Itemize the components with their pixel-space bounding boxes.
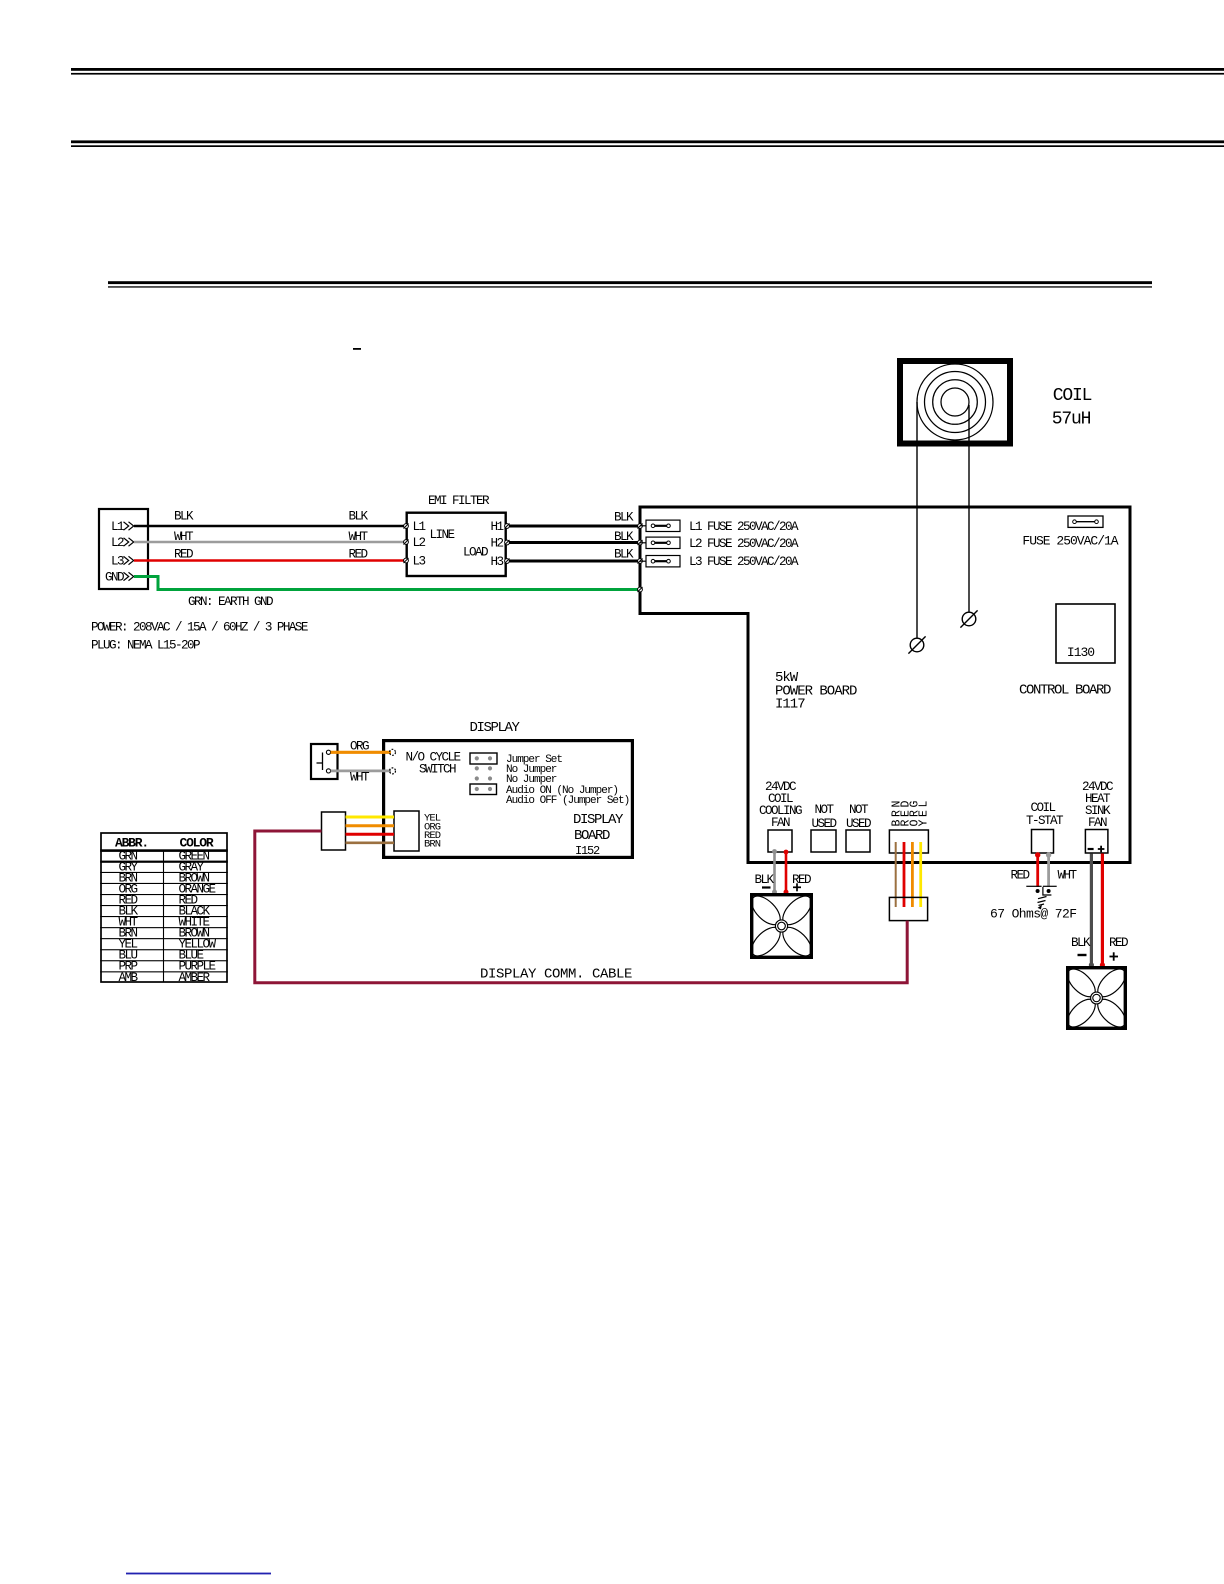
- svg-text:L3: L3: [413, 555, 426, 569]
- svg-text:L1: L1: [111, 520, 124, 534]
- svg-text:FAN: FAN: [771, 816, 790, 830]
- svg-text:WHT: WHT: [1058, 869, 1078, 883]
- svg-text:H3: H3: [491, 555, 504, 569]
- svg-text:COIL: COIL: [1053, 386, 1092, 406]
- svg-text:WHT: WHT: [350, 771, 370, 785]
- svg-text:NOT: NOT: [815, 803, 835, 817]
- svg-text:BLK: BLK: [614, 548, 634, 562]
- svg-text:LINE: LINE: [430, 528, 455, 542]
- svg-text:I117: I117: [775, 697, 805, 713]
- svg-text:AMB: AMB: [119, 971, 139, 985]
- svg-text:WHT: WHT: [174, 530, 194, 544]
- svg-text:H2: H2: [491, 537, 504, 551]
- svg-text:YEL: YEL: [918, 798, 931, 827]
- svg-text:ORG: ORG: [350, 740, 369, 754]
- svg-text:ABBR.: ABBR.: [115, 836, 148, 851]
- svg-text:COLOR: COLOR: [179, 836, 213, 851]
- svg-text:I130: I130: [1067, 645, 1094, 660]
- svg-text:67 Ohms@ 72F: 67 Ohms@ 72F: [990, 907, 1076, 922]
- svg-text:CONTROL BOARD: CONTROL BOARD: [1019, 683, 1111, 699]
- svg-text:FAN: FAN: [1088, 816, 1107, 830]
- svg-text:L3 FUSE 250VAC/20A: L3 FUSE 250VAC/20A: [689, 555, 799, 569]
- svg-text:BLK: BLK: [614, 511, 634, 525]
- svg-text:BRN: BRN: [424, 838, 441, 850]
- svg-text:T-STAT: T-STAT: [1026, 814, 1064, 828]
- svg-text:BLK: BLK: [174, 510, 194, 524]
- svg-text:BOARD: BOARD: [574, 828, 610, 844]
- svg-text:USED: USED: [846, 817, 871, 831]
- svg-text:57uH: 57uH: [1052, 410, 1091, 430]
- svg-text:GND: GND: [105, 571, 124, 585]
- svg-text:RED: RED: [1109, 936, 1128, 950]
- svg-text:EMI FILTER: EMI FILTER: [428, 494, 490, 508]
- svg-text:LOAD: LOAD: [463, 546, 488, 560]
- svg-text:WHT: WHT: [349, 530, 369, 544]
- svg-text:H1: H1: [491, 520, 504, 534]
- svg-text:AMBER: AMBER: [179, 971, 211, 985]
- svg-text:GRN: EARTH GND: GRN: EARTH GND: [188, 595, 273, 609]
- svg-text:USED: USED: [812, 817, 837, 831]
- svg-text:L1 FUSE 250VAC/20A: L1 FUSE 250VAC/20A: [689, 520, 799, 534]
- svg-text:COIL: COIL: [1031, 801, 1056, 815]
- svg-text:L1: L1: [413, 520, 426, 534]
- svg-text:Audio OFF (Jumper Set): Audio OFF (Jumper Set): [506, 795, 629, 807]
- svg-text:L2: L2: [111, 536, 124, 550]
- svg-text:BLK: BLK: [614, 530, 634, 544]
- svg-text:L3: L3: [111, 555, 124, 569]
- svg-text:RED: RED: [349, 548, 368, 562]
- svg-text:L2: L2: [413, 536, 426, 550]
- svg-text:I152: I152: [575, 844, 600, 858]
- svg-text:BLK: BLK: [349, 510, 369, 524]
- svg-text:NOT: NOT: [849, 803, 869, 817]
- svg-text:BLK: BLK: [755, 873, 775, 887]
- svg-text:PLUG: NEMA L15-20P: PLUG: NEMA L15-20P: [91, 639, 200, 653]
- svg-text:DISPLAY COMM. CABLE: DISPLAY COMM. CABLE: [480, 967, 632, 983]
- svg-text:DISPLAY: DISPLAY: [573, 812, 624, 828]
- svg-text:RED: RED: [1011, 869, 1030, 883]
- svg-text:POWER: 208VAC / 15A / 60HZ /: POWER: 208VAC / 15A / 60HZ / 3 PHASE: [91, 621, 308, 635]
- svg-text:BLK: BLK: [1071, 936, 1091, 950]
- svg-text:RED: RED: [174, 548, 193, 562]
- svg-text:L2 FUSE 250VAC/20A: L2 FUSE 250VAC/20A: [689, 537, 799, 551]
- svg-text:FUSE 250VAC/1A: FUSE 250VAC/1A: [1022, 534, 1118, 549]
- svg-text:DISPLAY: DISPLAY: [469, 720, 520, 736]
- svg-text:SWITCH: SWITCH: [419, 763, 456, 777]
- svg-text:RED: RED: [792, 873, 811, 887]
